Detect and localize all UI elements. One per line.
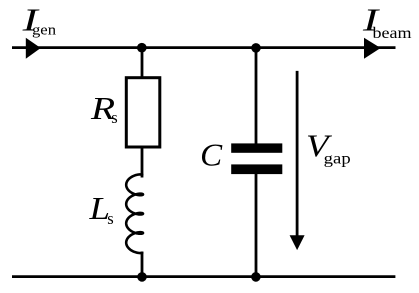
inductor L_s coil	[126, 174, 143, 253]
wire top horizontal	[12, 46, 396, 49]
wire bottom horizontal (ground rail)	[12, 275, 395, 278]
node junction top-left	[137, 43, 147, 53]
V_gap arrowhead	[290, 235, 305, 250]
node junction bottom-left	[137, 272, 147, 282]
wire from top node to capacitor	[255, 48, 258, 144]
svg-text:gap: gap	[324, 150, 351, 167]
svg-text:C: C	[200, 136, 223, 172]
svg-text:s: s	[111, 108, 117, 127]
svg-text:beam: beam	[373, 25, 413, 42]
wire capacitor to bottom rail	[255, 174, 258, 277]
svg-text:gen: gen	[32, 22, 57, 38]
wire from top node to resistor	[141, 48, 144, 77]
wire resistor to inductor	[141, 147, 144, 178]
V_gap arrow shaft	[296, 71, 299, 238]
node junction bottom-right	[251, 272, 261, 282]
node junction top-right	[251, 43, 261, 53]
wire inductor to bottom rail	[141, 252, 144, 277]
arrow I_gen (left current arrow)	[26, 38, 41, 59]
svg-text:s: s	[107, 209, 113, 228]
resistor R_s body	[126, 78, 160, 147]
capacitor C bottom plate	[231, 164, 282, 174]
arrow I_beam (right current arrow)	[364, 38, 381, 59]
capacitor C top plate	[231, 143, 282, 152]
